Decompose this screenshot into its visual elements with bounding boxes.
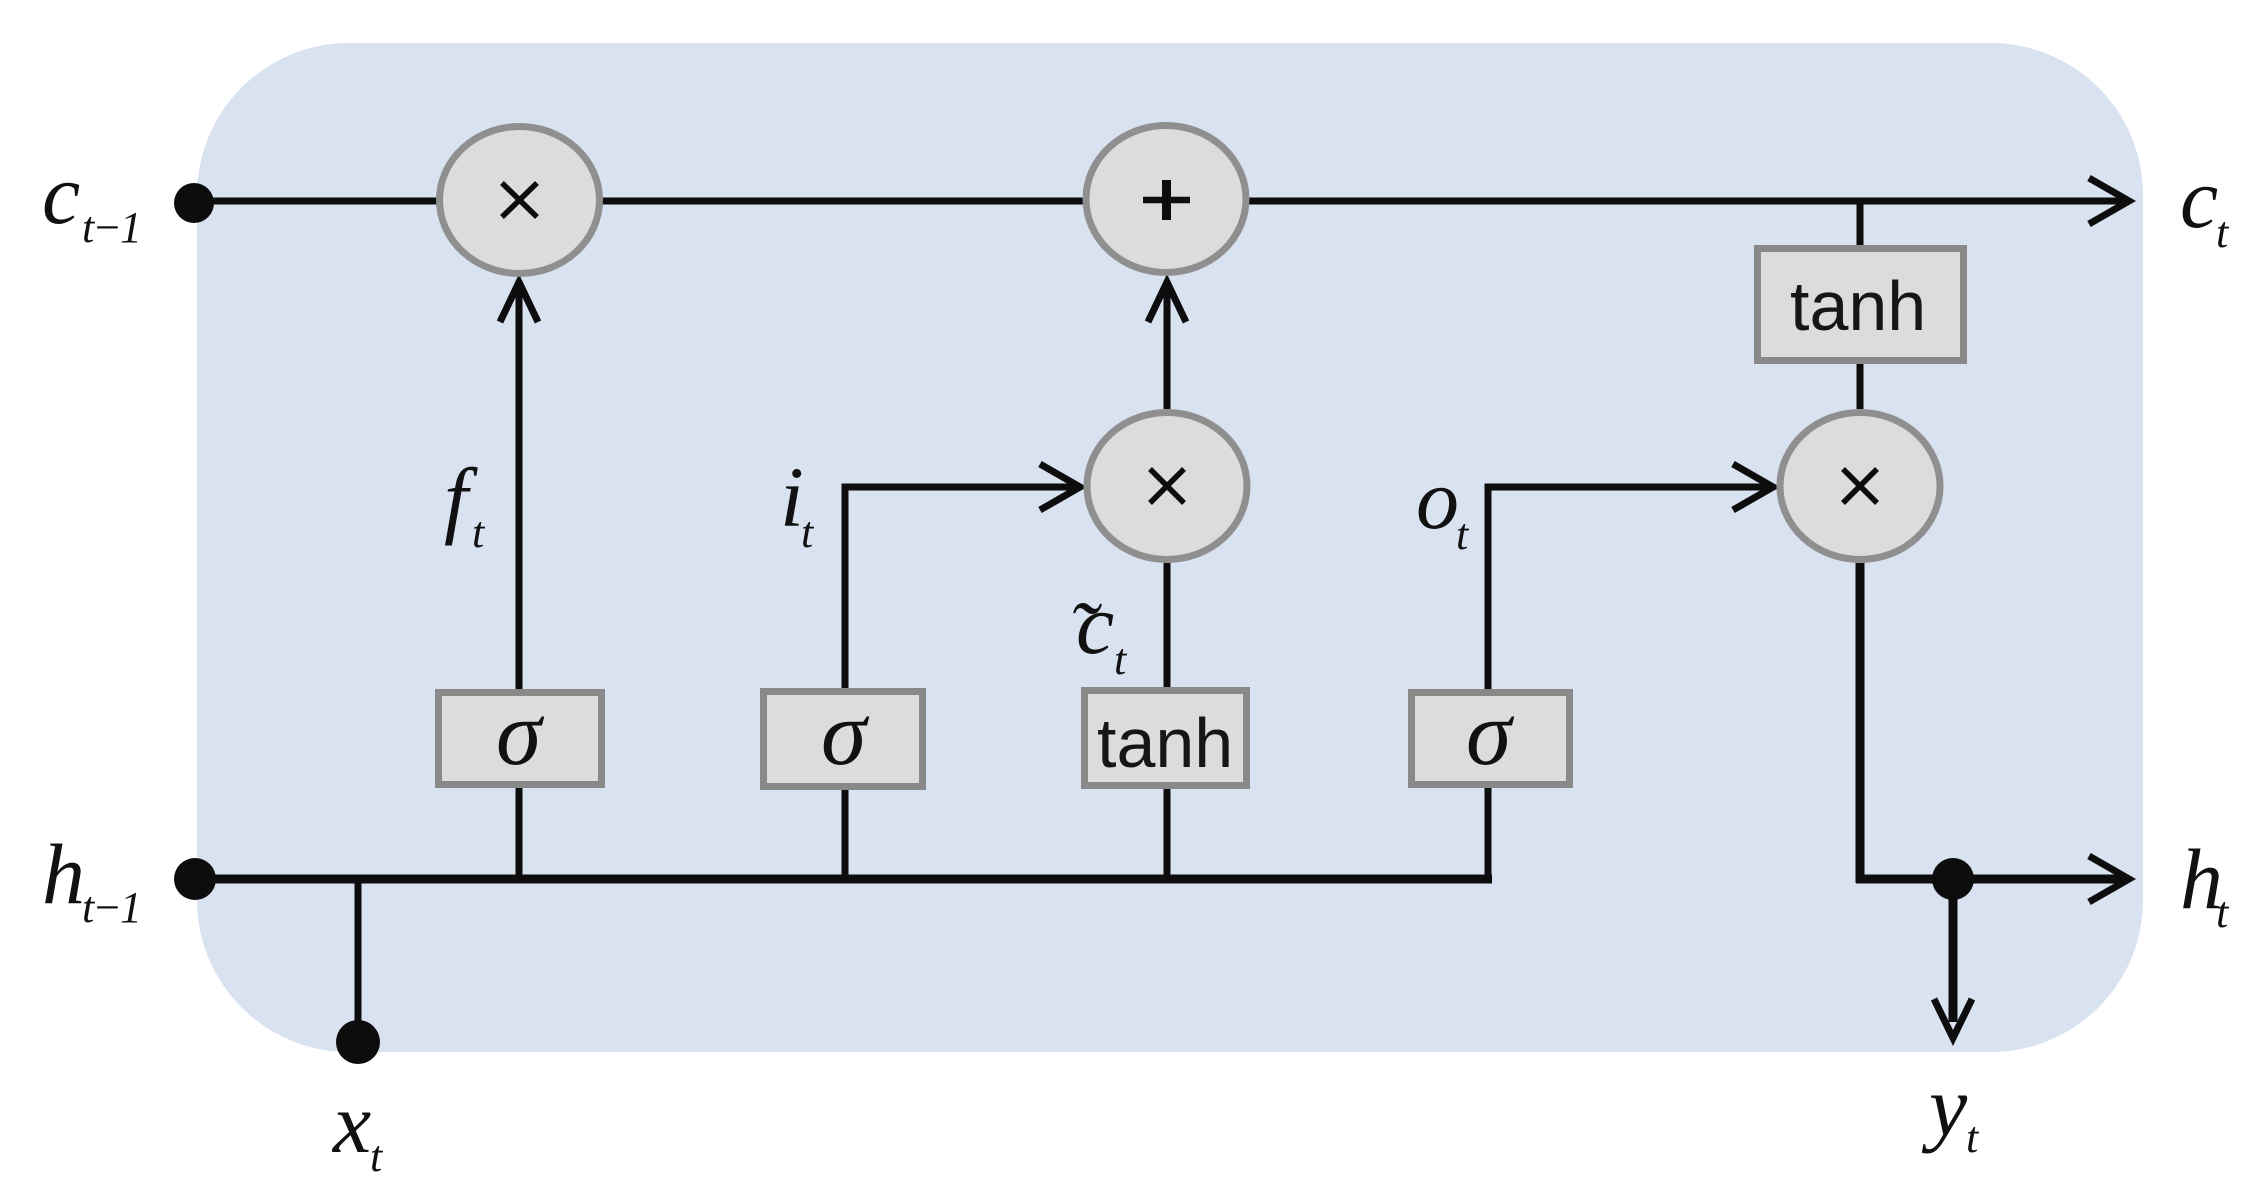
label y_t xyxy=(1921,1058,1980,1162)
wire f: sigma1 up to multiply gate xyxy=(516,283,523,689)
sigma box 1 (forget gate) xyxy=(439,682,602,785)
wire sigma2 down to h-line xyxy=(842,790,849,879)
sigma box 3 (output gate) xyxy=(1412,682,1570,785)
wire c-line (top horizontal) xyxy=(195,198,2124,205)
label c~_t xyxy=(1068,576,1128,684)
wire sigma3 down to h-line xyxy=(1485,788,1492,879)
svg-text:σ: σ xyxy=(821,682,870,784)
node h/y junction dot xyxy=(1932,858,1974,900)
wire o: sigma3 up and right to multiply gate right xyxy=(1488,487,1771,689)
multiply gate right xyxy=(1780,413,1940,560)
multiply gate mid xyxy=(1087,413,1247,560)
node c_{t-1} dot xyxy=(174,183,214,223)
arrowhead y_t xyxy=(1934,999,1972,1038)
add gate (top middle) xyxy=(1086,126,1246,273)
wire tanh-bottom down to h-line xyxy=(1164,789,1171,879)
label c_{t-1} xyxy=(42,146,140,252)
svg-text:c: c xyxy=(2180,150,2218,246)
arrowhead into add gate xyxy=(1148,282,1186,322)
svg-text:t: t xyxy=(2216,888,2230,937)
node x_t dot xyxy=(336,1020,380,1064)
tanh box bottom (candidate) xyxy=(1085,691,1247,786)
wire h out to the right xyxy=(1856,875,2124,884)
label o_t xyxy=(1416,451,1470,559)
arrowhead into multiply gate 1 xyxy=(500,282,538,322)
svg-text:t: t xyxy=(370,1132,384,1181)
sigma box 2 (input gate) xyxy=(764,682,923,787)
svg-text:t−1: t−1 xyxy=(82,203,140,252)
svg-text:tanh: tanh xyxy=(1097,704,1233,782)
wire i: sigma2 up and right to multiply gate mid xyxy=(845,487,1078,689)
svg-text:t−1: t−1 xyxy=(82,883,140,932)
wire tanh-top down to multiply gate right xyxy=(1857,364,1864,409)
wire sigma1 down to h-line xyxy=(516,788,523,879)
tanh box top right xyxy=(1758,249,1964,361)
svg-text:t: t xyxy=(1966,1113,1980,1162)
label h_t xyxy=(2180,831,2230,937)
cell body background xyxy=(197,43,2143,1052)
svg-text:y: y xyxy=(1921,1058,1968,1154)
arrowhead into multiply gate mid xyxy=(1040,464,1080,510)
label c_t xyxy=(2180,150,2230,257)
wire c~ : tanh box up to multiply gate mid xyxy=(1164,563,1171,687)
label f_t xyxy=(444,450,486,557)
wire multiply right down to h out xyxy=(1856,563,1865,883)
node h_{t-1} dot xyxy=(174,858,216,900)
wire y_t output down xyxy=(1949,879,1958,1022)
label h_{t-1} xyxy=(42,826,140,932)
svg-text:c: c xyxy=(42,146,80,242)
multiply gate 1 (top left) xyxy=(440,127,600,274)
svg-text:tanh: tanh xyxy=(1790,267,1926,345)
arrowhead c_t xyxy=(2089,178,2129,224)
wire c-line down into tanh-top xyxy=(1857,201,1864,245)
svg-text:σ: σ xyxy=(496,682,545,784)
wire h-line (bottom horizontal) xyxy=(195,875,1492,884)
label i_t xyxy=(780,449,815,557)
svg-text:σ: σ xyxy=(1466,682,1515,784)
svg-text:x: x xyxy=(331,1075,371,1171)
arrowhead h_t xyxy=(2089,856,2129,902)
wire x_t input branch xyxy=(355,879,362,1042)
svg-text:h: h xyxy=(42,826,85,922)
svg-text:o: o xyxy=(1416,451,1459,547)
svg-text:t: t xyxy=(2216,208,2230,257)
label x_t xyxy=(331,1075,384,1181)
arrowhead into multiply gate right xyxy=(1733,464,1773,510)
wire multiply mid up to add gate xyxy=(1164,283,1171,409)
